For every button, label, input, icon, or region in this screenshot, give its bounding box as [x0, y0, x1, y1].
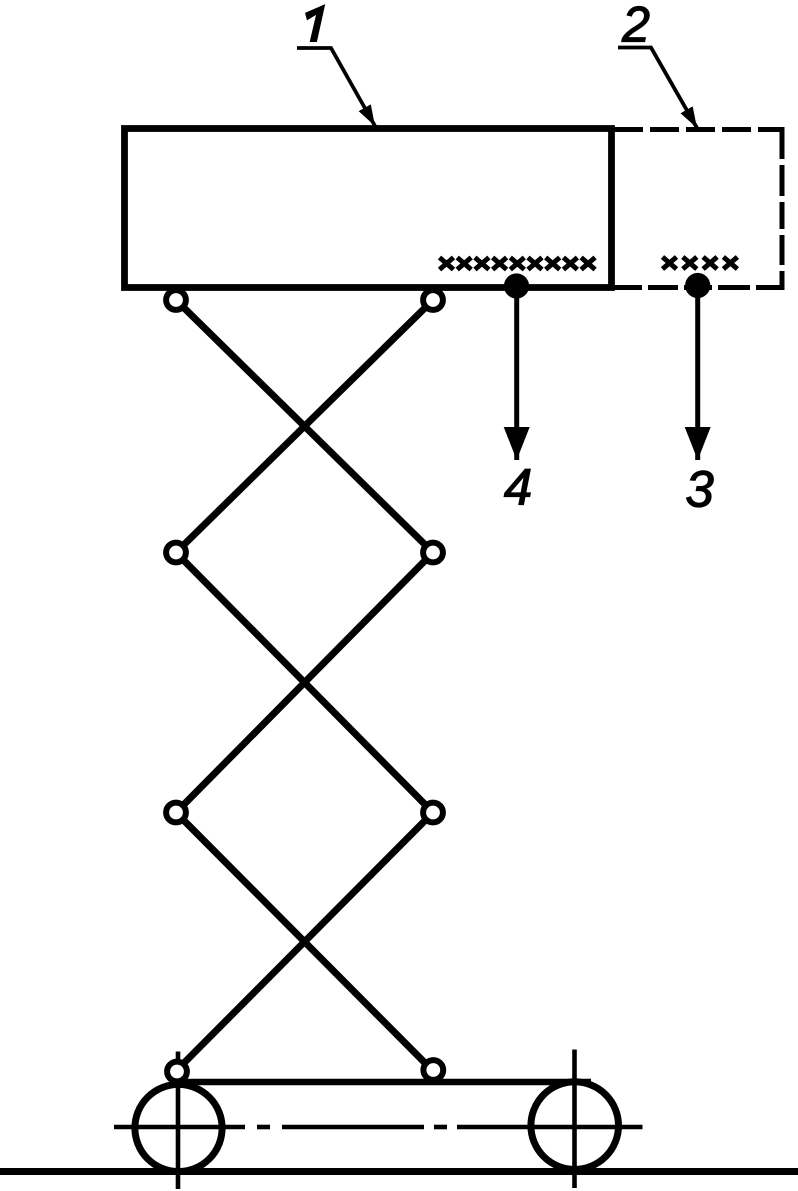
svg-text:2: 2 [621, 0, 650, 53]
svg-text:4: 4 [504, 459, 532, 516]
svg-text:3: 3 [685, 461, 713, 518]
